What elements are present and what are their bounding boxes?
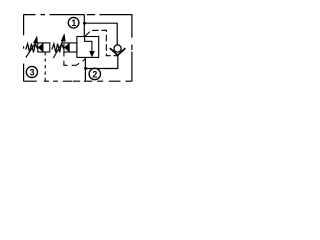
main valve U1 body [77, 37, 99, 58]
spring S2 [52, 44, 64, 53]
pilot drain wire D1 (dashed) [44, 52, 46, 81]
port label circle 3 [26, 66, 37, 77]
port label circle 2 [89, 68, 100, 79]
node junction dot port 1 [83, 22, 86, 25]
envelope top border (dashed) [24, 14, 133, 16]
adjustment arrow A1 [26, 44, 35, 58]
adjustment arrow A2 [53, 42, 63, 58]
pilot poppet stage E1 body [38, 43, 50, 52]
svg-text:1: 1 [71, 18, 76, 28]
pilot poppet stage E1 poppet (filled triangle) [38, 43, 43, 52]
pilot poppet stage E2 poppet (filled triangle) [64, 43, 69, 52]
pilot drain wire D2 (dashed) [64, 52, 85, 65]
pilot sense wire D3 (dashed) [85, 30, 118, 56]
envelope bottom border (dashed) [24, 80, 133, 82]
svg-text:2: 2 [92, 69, 97, 79]
port label circle 1 [68, 17, 79, 28]
check valve CV seat [110, 48, 126, 55]
envelope right border (dashed) [131, 14, 133, 81]
node junction dot port 2 [84, 67, 87, 70]
wire check valve bottom [85, 55, 117, 68]
pilot poppet stage E2 body [64, 43, 77, 52]
check valve CV ball [114, 45, 121, 52]
main valve U1 internal flow path with arrow [85, 37, 92, 52]
wire port 2 drop [84, 57, 86, 81]
envelope left border (dashed) [23, 14, 25, 81]
svg-text:3: 3 [30, 67, 35, 77]
wire branch to check valve top [85, 23, 118, 45]
port 1 riser wire [83, 15, 85, 37]
spring S1 [26, 44, 38, 53]
